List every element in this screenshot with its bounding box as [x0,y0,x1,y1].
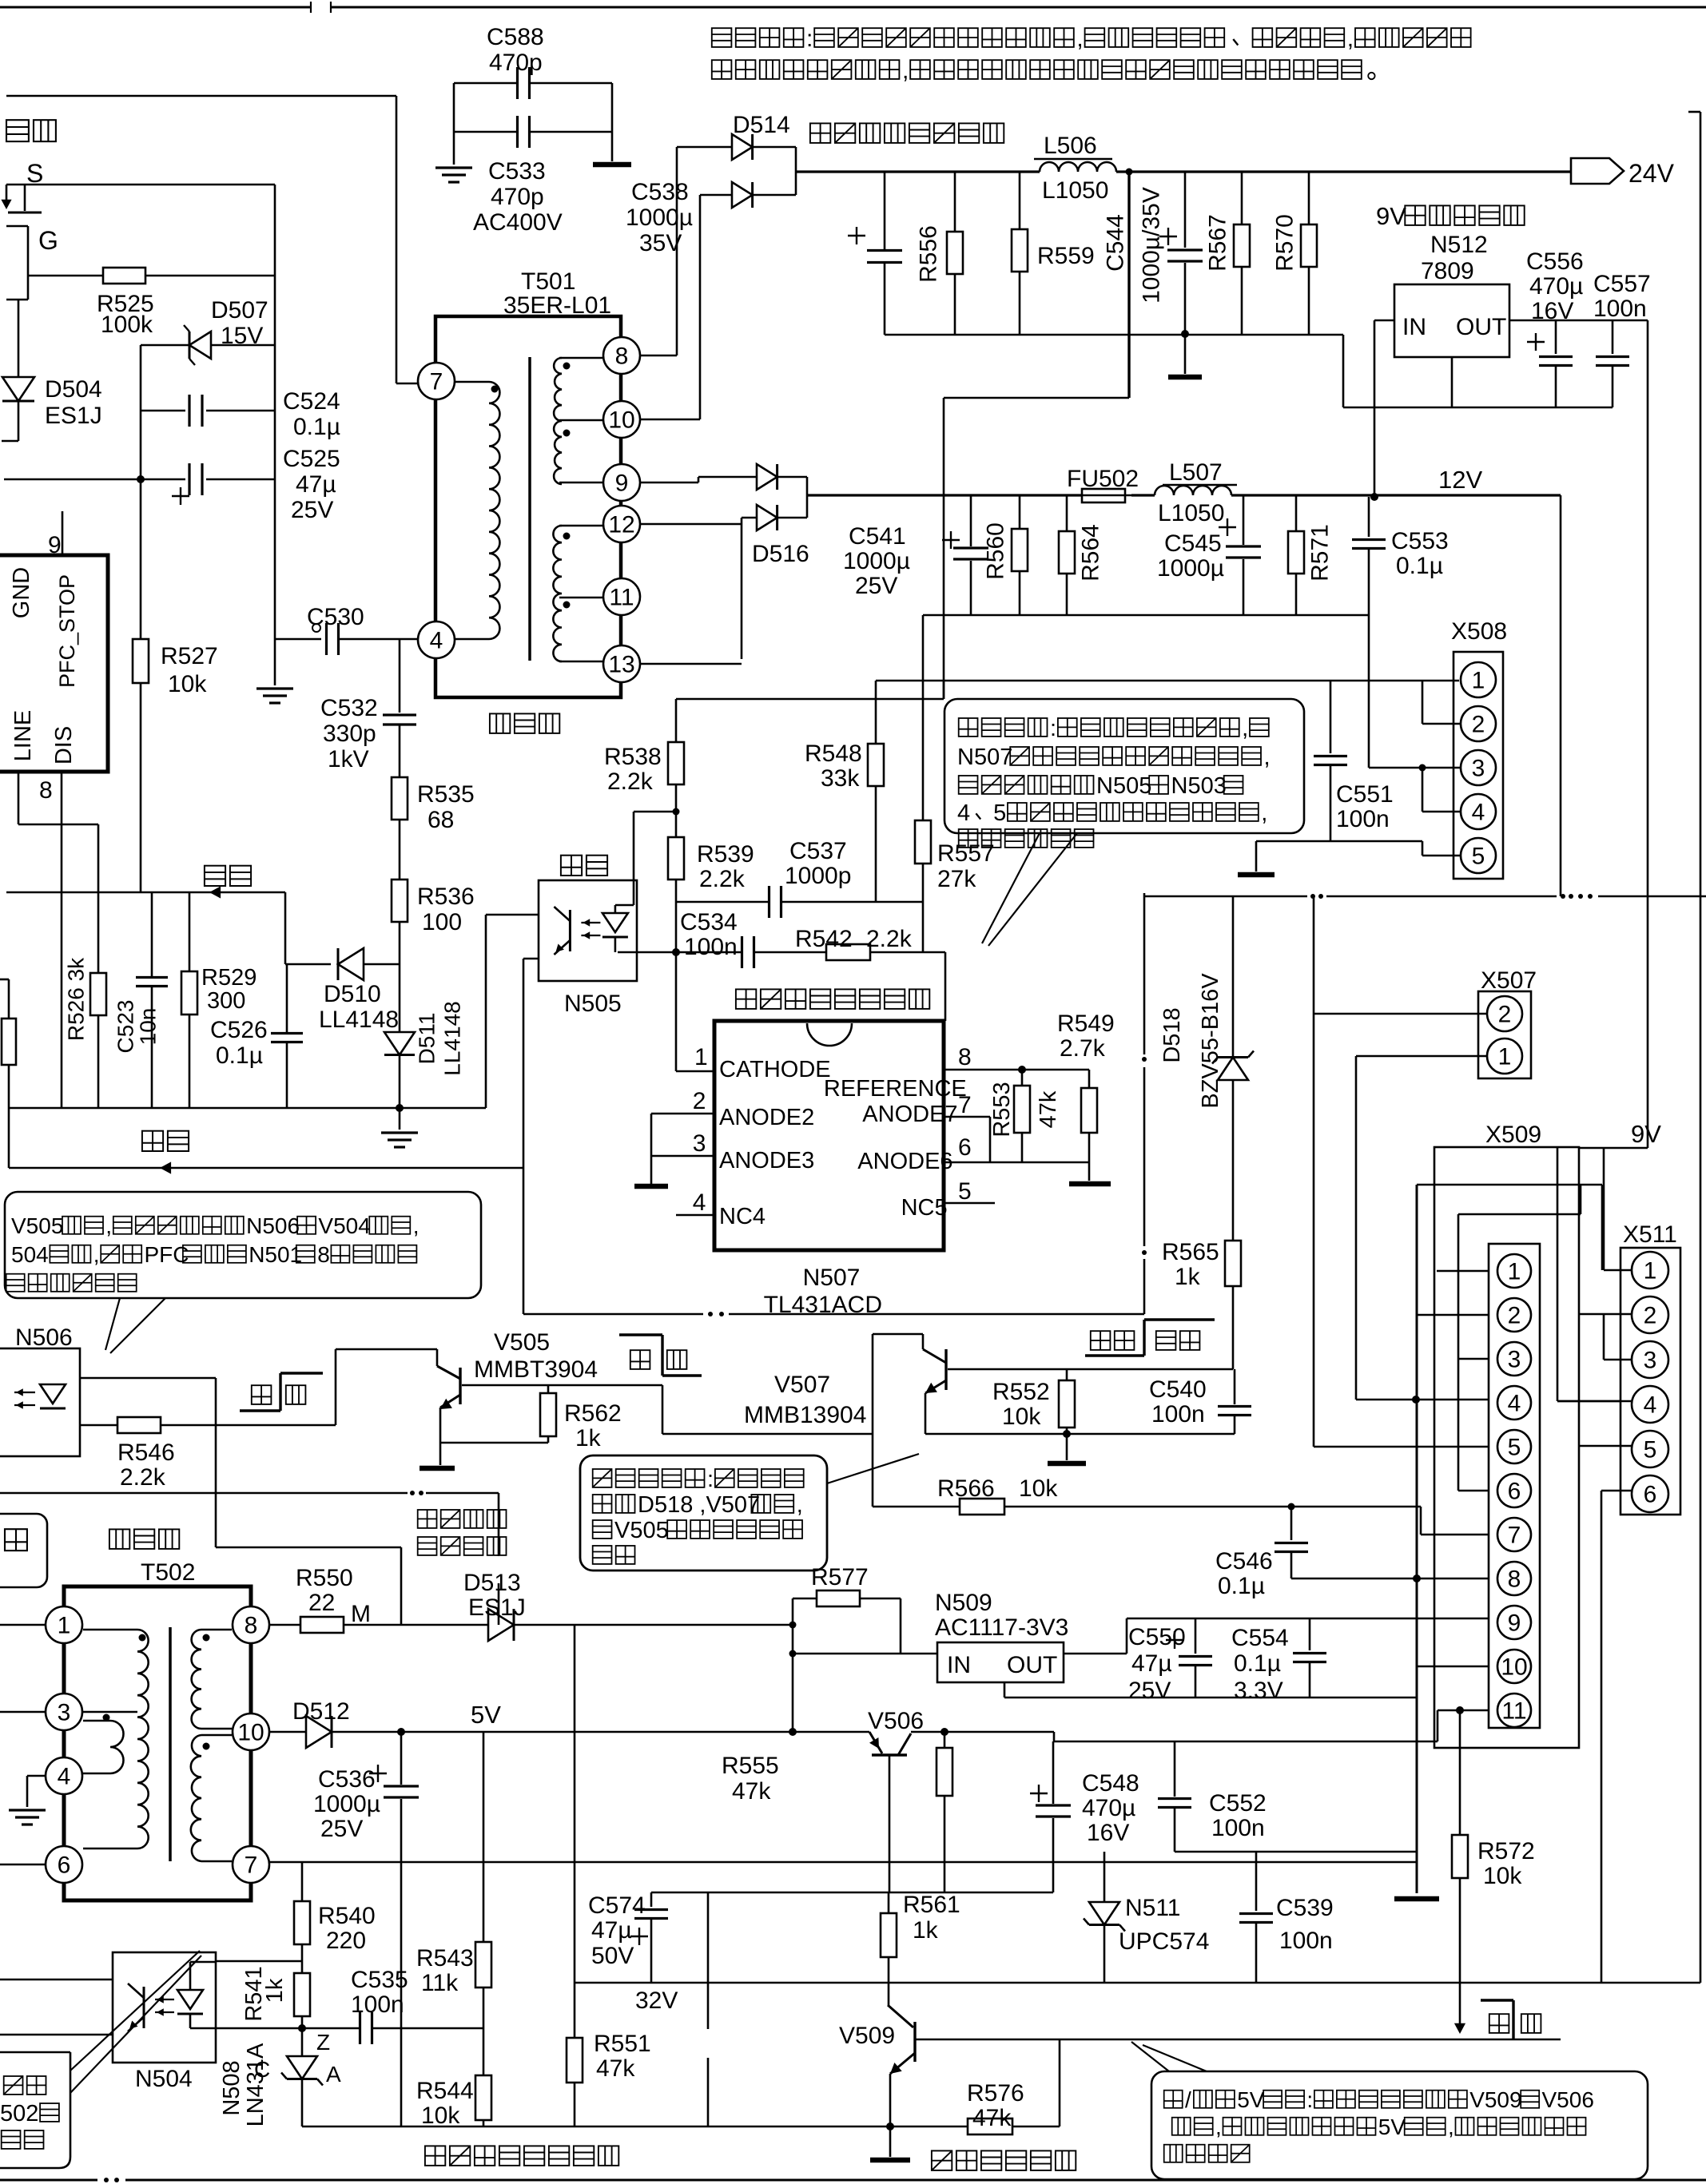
T502 pin 4 [46,1757,82,1794]
svg-text:,: , [1448,2115,1454,2139]
X509 pin 2 [1497,1298,1531,1332]
svg-text:1000µ: 1000µ [843,548,910,574]
T502 pin 7 [233,1846,269,1883]
resistor R541 1k [294,1973,310,2016]
svg-text:NC5: NC5 [901,1195,948,1221]
svg-text:DIS: DIS [51,726,77,764]
svg-text:C574: C574 [588,1892,646,1919]
svg-text:3: 3 [58,1700,71,1726]
capacitor C525 (polarized) [4,478,185,481]
rectifier D516 (dual diode) [698,477,700,482]
resistor R525 [28,275,103,277]
resistor R527 10k [133,639,149,683]
svg-text:47k: 47k [1036,1090,1061,1128]
resistor R548 33k [875,681,877,744]
svg-text:470p: 470p [491,184,544,210]
capacitor C536 1000µ 25V [400,1732,403,1785]
svg-text:ANODE2: ANODE2 [719,1105,814,1130]
X508 pin4 wire [1422,768,1424,812]
svg-text:R526 3k: R526 3k [64,957,89,1041]
svg-text:R564: R564 [1078,524,1104,582]
switch waveform symbol 开关 (2) [619,1333,662,1336]
zener D507 15V [141,344,189,347]
wire 24V sense to X508 pin1 [876,680,1459,682]
pin 12 [603,506,640,542]
12V rail [807,494,1082,496]
X509 pin5 wire [1314,1446,1489,1448]
T502 pin 1 [46,1606,82,1643]
svg-text:100k: 100k [101,312,153,338]
T501 secondary winding lower [553,526,562,661]
svg-text:1k: 1k [575,1425,602,1451]
capacitor C550 47µ 25V [1195,1618,1197,1654]
svg-text:4: 4 [957,800,970,826]
svg-text:C530: C530 [307,604,364,630]
svg-text:1: 1 [1498,1044,1512,1070]
svg-text:68: 68 [427,807,454,833]
svg-text:R557: R557 [937,840,995,867]
svg-text:3.3V: 3.3V [1234,1678,1283,1704]
X509 pin4 wire [1356,1399,1489,1401]
wire D514 to T501 pin10 [699,195,702,419]
svg-text:502: 502 [0,2101,38,2126]
svg-text:G: G [38,226,58,255]
X511 pin 6 [1632,1475,1668,1512]
svg-text:8: 8 [245,1613,258,1639]
svg-text:L507: L507 [1169,459,1223,486]
pin 13 [603,645,640,682]
X511 pin4 wire (9V) [1557,1400,1632,1403]
svg-text:Z: Z [316,2030,330,2055]
svg-text:BZV55-B16V: BZV55-B16V [1198,973,1223,1109]
svg-text:N507: N507 [803,1265,861,1291]
capacitor C532 330p 1kV [399,639,401,713]
svg-text:R555: R555 [722,1753,779,1779]
svg-text:LINE: LINE [10,710,36,761]
svg-text:N508: N508 [219,2060,245,2115]
junction [137,475,145,483]
svg-text:,: , [1215,2115,1222,2139]
svg-text:C552: C552 [1209,1790,1267,1817]
label 变压器 [109,1529,129,1549]
bottom bus y=1122 [1144,895,1307,898]
svg-text:1000µ: 1000µ [1157,555,1224,582]
resistor R544 10k [483,2028,485,2075]
svg-text:,: , [1242,716,1248,741]
label 二次整流滤波电路 [810,123,830,143]
resistor R577 [793,1598,817,1600]
svg-text:1: 1 [694,1044,708,1070]
resistor R566 10k [873,1506,960,1508]
svg-text:N506: N506 [246,1213,300,1238]
ground bar [593,162,631,168]
svg-text:,: , [1261,800,1267,826]
wire y=1483 [1417,1184,1602,1186]
svg-text:FU502: FU502 [1067,466,1139,492]
wire y=875 from 24V drop [676,698,944,701]
wire D514 to T501 pin8 [676,147,678,355]
resistor R546 2.2k [80,1424,117,1427]
pin 8 [603,337,640,374]
svg-text:1: 1 [1644,1258,1657,1285]
svg-text:V507: V507 [774,1372,830,1398]
X509 pin9 wire (3.3V) [1127,1618,1489,1620]
svg-text::: : [806,26,813,52]
svg-text:N503: N503 [1171,773,1227,799]
X509 pin 10 [1497,1650,1531,1683]
svg-text:C553: C553 [1391,528,1449,554]
svg-text::: : [1306,2087,1313,2112]
svg-text:UPC574: UPC574 [1119,1928,1209,1955]
svg-text:R562: R562 [564,1400,622,1427]
svg-text:1000µ: 1000µ [626,205,693,231]
svg-text:5: 5 [993,800,1006,826]
svg-text:N512: N512 [1430,232,1488,258]
svg-text:25V: 25V [855,573,897,599]
resistor R557 27k [922,615,925,820]
wire R539 chain to N507 pin1 [675,952,678,1071]
resistor R539 2.2k [668,837,684,880]
pin 7 [418,363,455,399]
svg-text:9: 9 [1508,1610,1521,1637]
svg-text:IN: IN [947,1652,971,1678]
capacitor C557 100n [1612,320,1614,354]
resistor R552 10k [1066,1369,1068,1380]
X509 pin2 wire [1417,1314,1489,1316]
svg-text:7: 7 [1508,1523,1521,1549]
svg-text:C537: C537 [789,838,847,864]
svg-text:5V: 5V [471,1701,501,1729]
svg-text:8: 8 [958,1044,972,1070]
svg-text:D518 ,V507: D518 ,V507 [638,1492,760,1518]
vertical x=176: D507-C524-C525-R527 chain [140,345,142,479]
capacitor C526 0.1µ [286,964,288,1032]
label 稳压 [142,1131,163,1151]
svg-text:R546: R546 [117,1439,175,1466]
svg-text:/: / [1185,2087,1191,2112]
ground bar [1069,1181,1111,1187]
X509 pin 9 [1497,1606,1531,1639]
svg-text:47k: 47k [596,2055,635,2082]
capacitor C552 100n [1174,1741,1176,1797]
svg-text:25V: 25V [1128,1678,1171,1704]
svg-text:8: 8 [39,777,53,804]
svg-text:100n: 100n [1336,806,1390,832]
svg-text:C557: C557 [1593,271,1651,297]
capacitor C544 1000µ/35V [1184,172,1187,248]
svg-text:ANODE6: ANODE6 [857,1149,952,1174]
svg-text:C548: C548 [1082,1770,1139,1797]
svg-text::: : [707,1467,714,1492]
svg-text:LL4148: LL4148 [440,1001,465,1075]
ground [9,1809,46,1811]
X509 pin 7 [1497,1518,1531,1551]
svg-text:,: , [1264,745,1271,770]
svg-text:R544: R544 [416,2078,474,2104]
svg-text:OUT: OUT [1456,314,1506,340]
svg-text:100n: 100n [1211,1815,1265,1841]
svg-text:D507: D507 [211,297,268,324]
svg-text:V509: V509 [1469,2087,1521,2112]
svg-text:1k: 1k [913,1917,939,1944]
capacitor C554 0.1µ 3.3V [1309,1618,1311,1650]
capacitor C556 470µ 16V [1555,320,1557,354]
svg-text:D513: D513 [463,1570,521,1596]
svg-text:100: 100 [422,909,462,935]
inductor L506 / L1050 [1040,162,1116,172]
svg-text:5V: 5V [1237,2087,1265,2112]
svg-text:C535: C535 [351,1967,408,1993]
resistor R542 2.2k [826,944,870,960]
capacitor C524 [141,410,185,412]
svg-text:M: M [351,1601,371,1627]
resistor R565 1k [1225,1241,1241,1286]
X509 pin 4 [1497,1386,1531,1420]
capacitor C551 100n [1330,680,1332,753]
left edge resistor [0,979,9,981]
svg-text:C554: C554 [1231,1625,1289,1651]
label 稳压 [561,856,582,876]
svg-text:5: 5 [1472,844,1485,870]
X511 pin 3 [1632,1341,1668,1378]
resistor R529 300 [189,892,191,971]
resistor R538 2.2k [675,699,678,742]
svg-text:2.2k: 2.2k [607,768,654,795]
svg-text:5: 5 [958,1178,972,1205]
svg-text:R551: R551 [594,2031,651,2057]
svg-text:470p: 470p [489,50,543,76]
X511 pin 5 [1632,1431,1668,1467]
svg-text:1: 1 [1472,668,1485,694]
svg-text:ES1J: ES1J [468,1594,526,1621]
svg-text:R536: R536 [417,884,475,910]
svg-text:T502: T502 [141,1559,195,1586]
svg-text:2.2k: 2.2k [120,1464,166,1491]
X511 pin 4 [1632,1386,1668,1423]
svg-text:9V: 9V [1631,1120,1661,1148]
label 反馈 [205,866,225,886]
junction D511/bus [396,1104,404,1112]
arrow-tag box 个 [0,1514,47,1587]
svg-text:27k: 27k [937,866,976,892]
svg-text:R542: R542 [795,926,853,952]
svg-text:N506: N506 [15,1324,73,1351]
svg-text:N504: N504 [135,2066,193,2092]
svg-text:C524: C524 [283,388,340,415]
svg-text:GND: GND [9,567,34,618]
wire R577/IN to 5V [792,1598,794,1732]
ground bar [1168,375,1202,380]
svg-text:,: , [93,1242,100,1267]
svg-text:R550: R550 [296,1565,353,1591]
N507 pin 6 [944,1161,990,1164]
V505 base net to V507 collector [662,1385,664,1434]
T502 pin 8 [233,1606,269,1643]
svg-text:R577: R577 [811,1564,869,1590]
svg-text:X509: X509 [1485,1122,1541,1148]
resistor R565->R572 column: R572 10k [1456,1706,1464,1714]
svg-text:4: 4 [1508,1391,1521,1417]
svg-text:,: , [1347,26,1354,52]
capacitor C537 1000p [676,901,769,903]
resistor R561 1k [651,1892,1053,1894]
X509 pin 11 [1497,1694,1531,1727]
X509 pin 3 [1497,1342,1531,1376]
capacitor C538 1000µ 35V [884,172,886,249]
ground bus 12V filter [923,614,1369,617]
svg-text:R576: R576 [967,2080,1024,2107]
labels N508 [219,2060,245,2115]
resistor R555 47k [940,1728,948,1736]
X508 pin 1 [1461,662,1496,697]
32V wire [575,1982,1700,1984]
right edge vertical [1700,112,1702,896]
svg-text:LN431A: LN431A [243,2043,268,2126]
inductor L507 / L1050 [1131,494,1155,496]
wire N505 collector to bus [485,915,487,1108]
capacitor C553 0.1µ [1368,497,1370,537]
X509 pin6 wire [1457,1214,1460,1491]
svg-text:L1050: L1050 [1042,177,1108,204]
resistor R536 100 [392,880,408,922]
svg-text:8: 8 [317,1242,330,1267]
resistor R535 68 [392,777,408,820]
svg-text:R556: R556 [916,225,942,283]
svg-text:N511: N511 [1125,1895,1181,1921]
svg-text:R565: R565 [1162,1239,1219,1265]
svg-text:10: 10 [608,407,634,434]
svg-text:R539: R539 [697,841,754,868]
IC N507 TL431ACD box [714,1021,944,1250]
svg-text:C545: C545 [1164,530,1222,557]
9V wire [1579,1147,1648,1150]
callout 比较 [0,2052,70,2168]
callout 开/关机5V控制 [1151,2071,1648,2179]
svg-text:0.1µ: 0.1µ [293,414,340,440]
V505 base wire [462,1384,662,1387]
svg-text:N505: N505 [564,991,622,1017]
X508 pin 4 [1461,794,1496,829]
svg-text:12: 12 [608,512,634,538]
svg-text:ANODE7: ANODE7 [862,1102,957,1127]
svg-text:C551: C551 [1336,781,1394,808]
vertical S-chain x=344 [274,185,276,639]
X508 pin5 wire / C551 ground [1256,840,1422,843]
capacitor C530 (series, with marker circle) [275,638,321,641]
svg-text:100n: 100n [1151,1401,1205,1428]
svg-text:10n: 10n [136,1008,161,1046]
svg-text:100n: 100n [351,1991,404,2018]
capacitor C541 1000µ 25V [970,495,972,546]
svg-text:C588: C588 [487,24,544,50]
svg-text:C532: C532 [320,695,378,721]
svg-text:C536: C536 [318,1766,376,1793]
svg-text:0.1µ: 0.1µ [1218,1573,1265,1599]
X509 pin8 wire [1291,1578,1489,1580]
V509 base wire [915,2039,1561,2041]
svg-text:C525: C525 [283,446,340,472]
svg-text:V506: V506 [868,1708,924,1734]
svg-text:47µ: 47µ [296,471,336,498]
svg-text:47k: 47k [732,1778,771,1805]
svg-text:47k: 47k [972,2105,1012,2131]
capacitor C574 47µ 50V [650,1892,653,1907]
junction 12V rail [1370,493,1378,501]
waveform symbol 正常/保护 [1085,1354,1144,1356]
resistor R549 2.7k [1022,1069,1089,1071]
resistor R540 220 [301,1862,304,1901]
svg-text:X508: X508 [1451,618,1507,645]
X508 pin3 wire [1369,767,1461,769]
24V feed down to secondary circuits [1126,169,1133,176]
svg-text:470µ: 470µ [1529,273,1583,300]
optocoupler N505 [539,880,637,981]
svg-text:9: 9 [48,532,62,558]
capacitor C540 100n [1234,1369,1236,1404]
svg-text:V505: V505 [494,1329,550,1356]
N505 LED leads [633,812,635,905]
ground bus y=1387 [9,1107,486,1110]
svg-text:V505: V505 [11,1213,63,1238]
V507 collector to R566 [872,1434,874,1507]
X509 pin3 wire [1458,1358,1489,1360]
svg-text:2: 2 [1644,1303,1657,1329]
svg-text:N507: N507 [957,745,1012,770]
svg-text:5: 5 [1644,1437,1657,1463]
svg-text:R527: R527 [161,643,218,669]
svg-text:11k: 11k [421,1970,459,1996]
svg-text:S: S [26,159,43,188]
svg-text:C534: C534 [680,909,738,935]
svg-text:D512: D512 [292,1698,350,1725]
svg-text:1000µ: 1000µ [313,1791,380,1817]
svg-text:R538: R538 [604,744,662,770]
svg-text:R571: R571 [1307,524,1334,582]
svg-text:C523: C523 [113,1000,138,1054]
ground bar [1394,1896,1439,1902]
svg-text:C539: C539 [1276,1895,1334,1921]
24V rail [796,170,1040,173]
svg-text:10k: 10k [1019,1475,1058,1502]
svg-text:10: 10 [237,1720,264,1746]
svg-text:13: 13 [608,652,634,678]
svg-text:100n: 100n [1279,1928,1333,1954]
5V rail [401,1731,793,1733]
svg-text:6: 6 [1508,1479,1521,1505]
svg-text:4: 4 [1644,1392,1657,1419]
svg-text:N509: N509 [935,1590,992,1616]
svg-text:32V: 32V [635,1987,678,2014]
svg-text:1k: 1k [262,1978,288,2003]
label 待机控制电路 [932,2150,952,2170]
pin 11 [603,578,640,615]
X509 pin 8 [1497,1562,1531,1595]
svg-text:100n: 100n [1593,296,1647,322]
svg-text:25V: 25V [291,497,333,523]
svg-text:,: , [413,1213,420,1238]
ground bar [1048,1461,1086,1467]
svg-text:R567: R567 [1205,214,1231,272]
optocoupler N504 [113,1952,216,2063]
ground bar [1238,872,1275,878]
svg-text:C544: C544 [1103,214,1129,272]
pin7 wire / secondary return bus [269,1861,1416,1864]
svg-text:AC400V: AC400V [473,209,563,236]
resistor R526 3k [90,973,106,1015]
resistor R564 [1066,495,1068,531]
svg-text:V504: V504 [318,1213,370,1238]
label 取样误差放大电路 [736,989,756,1009]
